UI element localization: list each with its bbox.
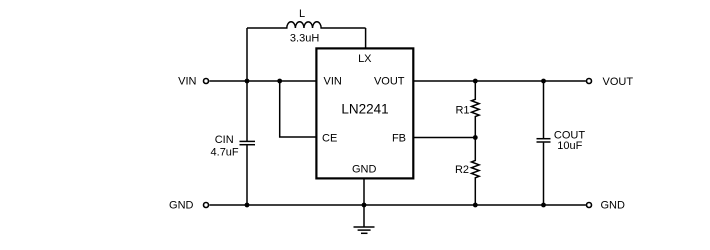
wire GND bus [209,204,586,206]
wire FB pin to divider [414,137,476,139]
node junction COUT bottom [541,203,546,208]
svg-text:R2: R2 [455,164,469,176]
node junction FB/R1/R2 [473,135,478,140]
node junction R1 top [473,79,478,84]
wire VIN terminal to IC VIN pin [209,80,316,82]
svg-text:LX: LX [358,53,372,65]
wire IC GND pin down through bus to ground [363,178,365,226]
node junction CIN bottom [245,203,250,208]
inductor L (4 humps) [247,22,366,28]
svg-text:R1: R1 [455,105,469,117]
wire CIN bottom to GND bus [246,145,248,205]
terminal GND right (open circle) [587,203,592,208]
svg-text:GND: GND [352,163,377,175]
node junction at VIN/inductor/CIN [245,79,250,84]
svg-text:10uF: 10uF [557,140,582,152]
wire COUT top leg [543,81,545,138]
wire VOUT pin to VOUT terminal [414,80,586,82]
terminal VOUT (open circle) [587,79,592,84]
wire vertical inductor left leg / CIN top [246,28,248,141]
svg-text:CE: CE [322,132,337,144]
node junction IC GND [362,203,367,208]
capacitor COUT plates [537,138,551,140]
svg-text:VIN: VIN [178,76,196,88]
svg-text:FB: FB [392,132,406,144]
ground symbol [354,227,375,233]
wire CE branch [280,81,317,137]
svg-text:VOUT: VOUT [603,76,634,88]
capacitor CIN plates [240,140,256,142]
op-amp U1 LN2241 IC body [316,48,413,178]
svg-text:CIN: CIN [215,134,234,146]
svg-text:GND: GND [601,200,626,212]
node junction COUT top [541,79,546,84]
node junction R2 bottom [473,203,478,208]
resistor R1 [472,81,480,138]
svg-text:VOUT: VOUT [374,76,405,88]
wire LX leg down into IC [365,28,367,48]
svg-text:GND: GND [169,199,194,211]
svg-text:L: L [299,8,305,20]
svg-text:LN2241: LN2241 [341,102,388,117]
node junction at CE branch [277,79,282,84]
wire COUT bottom leg [543,143,545,205]
svg-text:3.3uH: 3.3uH [290,32,319,44]
resistor R2 [472,138,480,206]
terminal GND left (open circle) [204,203,209,208]
svg-text:4.7uF: 4.7uF [211,147,239,159]
svg-text:VIN: VIN [324,76,342,88]
terminal VIN (open circle) [204,79,209,84]
